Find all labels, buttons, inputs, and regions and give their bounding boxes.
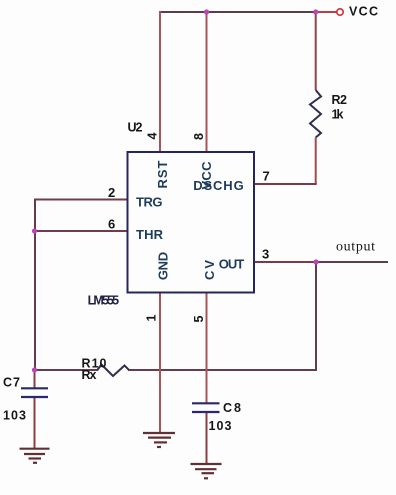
svg-text:2: 2 — [108, 185, 115, 200]
wire pin1 GND drop — [159, 293, 161, 434]
wire pin3 OUT — [254, 261, 317, 263]
wire bottom right — [130, 369, 318, 371]
wire pin2 TRG — [34, 199, 128, 201]
power terminal VCC — [337, 9, 343, 15]
wire R2 bottom lead — [315, 138, 317, 185]
svg-text:GND: GND — [155, 252, 170, 280]
svg-text:8: 8 — [192, 133, 206, 140]
wire pin4 drop — [159, 11, 161, 153]
wire R2 top lead — [315, 12, 317, 90]
junction OUT — [313, 259, 318, 264]
resistor R2 — [310, 90, 321, 138]
svg-text:1k: 1k — [332, 108, 344, 122]
wire bottom left — [34, 369, 97, 371]
junction C7 top — [32, 367, 37, 372]
svg-text:DSCHG: DSCHG — [193, 178, 244, 193]
op-amp U2 LM555 body — [128, 152, 255, 293]
svg-text:5: 5 — [192, 315, 206, 322]
ground pin1 — [143, 433, 175, 447]
svg-text:RST: RST — [155, 160, 170, 188]
junction R2 top — [313, 9, 318, 14]
wire C7 bottom lead — [34, 398, 36, 449]
wire pin6 THR — [34, 230, 128, 232]
svg-text:103: 103 — [209, 419, 232, 433]
wire pin5 CV drop — [206, 293, 208, 404]
wire top rail VCC net — [159, 11, 317, 13]
svg-text:C8: C8 — [223, 401, 241, 415]
svg-text:OUT: OUT — [219, 257, 245, 272]
resistor R10 — [97, 365, 130, 377]
svg-text:C7: C7 — [3, 376, 20, 390]
ground C7 — [20, 449, 50, 463]
svg-text:U2: U2 — [128, 121, 143, 135]
wire right vertical — [315, 262, 317, 371]
svg-text:THR: THR — [136, 227, 164, 242]
svg-text:TRG: TRG — [136, 195, 163, 210]
svg-text:6: 6 — [108, 217, 115, 232]
svg-text:1: 1 — [145, 314, 159, 321]
wire left vertical — [34, 199, 36, 372]
svg-text:7: 7 — [263, 169, 270, 184]
wire C7 top lead — [34, 370, 36, 388]
wire pin8 drop — [206, 12, 208, 153]
svg-text:Rx: Rx — [82, 368, 97, 382]
wire output — [316, 261, 388, 263]
svg-text:VCC: VCC — [349, 5, 378, 19]
junction THR left — [32, 228, 37, 233]
wire VCC stub — [316, 11, 337, 13]
wire pin7 DSCHG — [254, 183, 317, 185]
junction pin8 top — [204, 9, 209, 14]
capacitor C8 — [192, 403, 220, 412]
svg-text:3: 3 — [262, 247, 269, 262]
svg-text:R2: R2 — [332, 93, 348, 107]
capacitor C7 — [21, 388, 48, 397]
svg-text:output: output — [336, 240, 375, 255]
svg-text:4: 4 — [145, 132, 159, 139]
wire C8 bottom lead — [206, 413, 208, 465]
svg-text:103: 103 — [3, 409, 26, 423]
ground C8 — [191, 464, 222, 478]
svg-text:LM555: LM555 — [88, 294, 120, 308]
